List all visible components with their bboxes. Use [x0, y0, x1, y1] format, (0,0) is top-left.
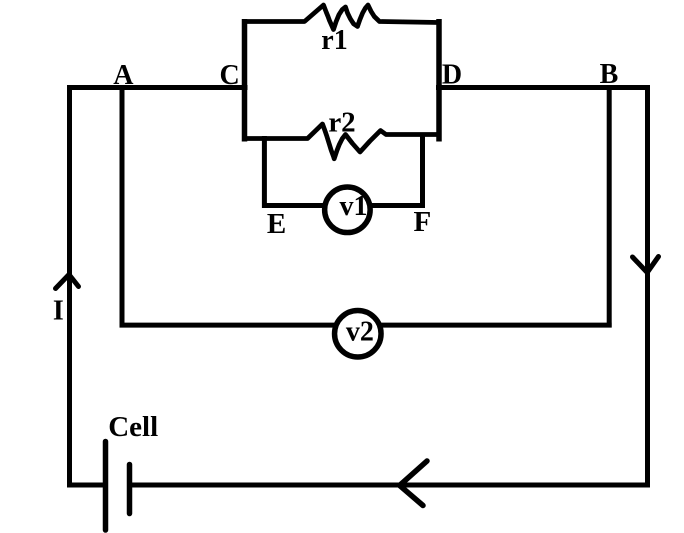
wire: right vertical [645, 85, 650, 488]
voltmeter V2 circle [335, 310, 382, 357]
svg-text:v1: v1 [340, 191, 368, 222]
wire: bottom right segment (cell to right corner) [131, 483, 650, 488]
wire: top bus D to B [436, 85, 650, 90]
node A vertical wire (down to v2 bus) [120, 88, 125, 328]
resistor r1 (top branch zigzag) [245, 5, 440, 30]
current arrow I (up) on left wire [56, 275, 79, 289]
svg-text:Cell: Cell [108, 411, 158, 443]
svg-text:r2: r2 [328, 107, 355, 139]
wire: E-F horizontal [262, 203, 425, 208]
cell short plate [127, 465, 133, 514]
svg-text:r1: r1 [321, 25, 347, 56]
svg-text:B: B [600, 59, 619, 90]
svg-text:v2: v2 [346, 317, 374, 348]
current arrow (left) on bottom wire [400, 461, 427, 506]
svg-text:D: D [442, 60, 462, 91]
svg-text:C: C [219, 60, 239, 91]
wire: left vertical (top corner down to cell) [67, 85, 72, 488]
svg-text:E: E [267, 208, 286, 240]
voltmeter V1 circle [325, 187, 371, 233]
wire: bottom left segment (left corner to cell) [67, 483, 104, 488]
node C junction bar [242, 19, 248, 142]
svg-text:A: A [113, 60, 134, 91]
svg-text:F: F [414, 206, 432, 238]
node E vertical wire [262, 136, 267, 208]
svg-text:I: I [53, 296, 64, 327]
current arrow (down) on right wire [633, 257, 659, 273]
wire: v2 horizontal bus A-B [120, 323, 612, 328]
node D junction bar [436, 19, 442, 142]
cell long plate [103, 442, 109, 531]
resistor r2 (lower branch zigzag) [245, 124, 440, 159]
node B vertical wire (down to v2 bus) [607, 88, 612, 328]
wire: top bus A to C [67, 85, 248, 90]
node F vertical wire [420, 133, 425, 208]
